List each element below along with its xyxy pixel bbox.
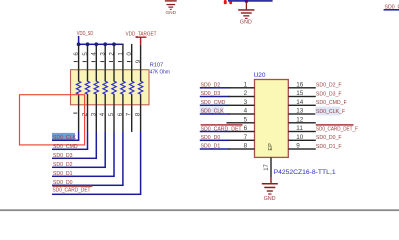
svg-text:3: 3	[90, 112, 97, 116]
resistor zigzag 2	[85, 81, 89, 94]
power VDD_TARGET	[126, 31, 158, 45]
svg-text:GND: GND	[264, 196, 276, 202]
sheet bottom border	[0, 209, 399, 211]
svg-text:SD0_CLK_F: SD0_CLK_F	[316, 109, 345, 115]
pin 9 stub (U20 right)	[288, 148, 316, 149]
wire SD0_CARD_DET (red segment, chip side)	[201, 124, 243, 125]
wire SD0_CMD to R107 pin	[52, 132, 88, 150]
pin number 1 (R107 bottom)	[73, 113, 77, 114]
ground symbol below U20	[262, 183, 278, 202]
svg-text:9: 9	[135, 59, 142, 63]
svg-text:13: 13	[296, 108, 304, 115]
pin number 16 (R107 top)	[73, 52, 80, 62]
ground symbol top-center	[238, 1, 254, 25]
svg-text:SD0_CARD_DET: SD0_CARD_DET	[53, 188, 92, 194]
svg-text:7: 7	[126, 112, 133, 116]
svg-text:14: 14	[296, 99, 304, 106]
svg-text:SD0_D2_F: SD0_D2_F	[316, 83, 342, 89]
junction dot line 3	[94, 42, 98, 46]
IC U20 body	[255, 80, 289, 158]
wire SD0_CMD to pin 3	[200, 105, 255, 107]
junction dot line 1	[77, 42, 81, 46]
svg-text:EP: EP	[268, 143, 274, 151]
ground symbol top-left	[165, 0, 177, 16]
pin 15 stub (U20 right)	[288, 96, 316, 97]
svg-text:5: 5	[82, 52, 89, 56]
pin 13 stub (U20 right)	[288, 113, 316, 114]
junction dot line 2	[86, 42, 90, 46]
pin number 12 (R107 top)	[108, 52, 115, 62]
resistor zigzag 4	[103, 81, 107, 94]
wire SD0_D1 to pin 8	[200, 148, 255, 150]
svg-text:6: 6	[244, 125, 248, 132]
highlight SD0_CLK label	[52, 133, 75, 140]
svg-text:6: 6	[73, 52, 80, 56]
highlight SD0_CLK_F (chip right)	[315, 107, 340, 116]
pin number 15 (R107 top)	[82, 52, 89, 62]
power VDD_SD	[77, 31, 94, 44]
resistor element 2 pin wires	[87, 44, 88, 132]
pin 10 stub (U20 right)	[288, 140, 316, 141]
svg-text:6: 6	[117, 112, 124, 116]
pin number 10 (R107 top)	[126, 52, 133, 62]
svg-text:4: 4	[244, 108, 248, 115]
svg-text:3: 3	[244, 99, 248, 106]
resistor zigzag 7	[130, 81, 134, 94]
wire SD0_CARD_DET to R107 pin 8	[52, 132, 141, 195]
svg-text:SD0_CARD_DET_F: SD0_CARD_DET_F	[316, 126, 358, 132]
wire SD0_D2 to R107 pin	[52, 132, 106, 168]
svg-text:5: 5	[244, 116, 248, 123]
svg-text:47K Ohm: 47K Ohm	[150, 70, 170, 76]
resistor zigzag 3	[94, 81, 98, 94]
wire SD0_CARD_DET_F (red segment)	[316, 124, 354, 125]
svg-text:GND: GND	[165, 10, 176, 16]
resistor zigzag 1	[76, 81, 80, 94]
svg-text:9: 9	[296, 143, 300, 150]
svg-text:R107: R107	[150, 62, 163, 68]
resistor zigzag 6	[121, 81, 125, 94]
wire pin 5 stub	[227, 122, 255, 123]
pin number 14 (R107 top)	[91, 52, 98, 62]
highlight SD0_CLK (chip left)	[200, 107, 224, 115]
junction dot top GND	[245, 0, 248, 3]
svg-text:SD0_CMD_F: SD0_CMD_F	[316, 100, 347, 106]
svg-text:16: 16	[296, 81, 304, 88]
resistor element 8 pin wires	[140, 45, 141, 132]
net label SD0_C (clipped)	[384, 4, 399, 10]
pin 12 stub (U20 right)	[288, 122, 316, 123]
resistor element 5 pin wires	[113, 44, 114, 132]
resistor element 4 pin wires	[105, 44, 106, 132]
svg-text:11: 11	[296, 125, 303, 132]
pin number 13 (R107 top)	[100, 52, 107, 62]
pin 14 stub (U20 right)	[288, 105, 316, 106]
wire SD0_CARD_DET (red segment)	[53, 185, 93, 186]
wire SD0_CLK to pin 4	[200, 113, 255, 115]
svg-text:8: 8	[244, 143, 248, 150]
svg-text:3: 3	[100, 52, 107, 56]
resistor zigzag 8	[138, 81, 142, 94]
wire SD0_D3 to R107 pin	[52, 132, 97, 159]
selection box (red)	[20, 95, 85, 145]
pin 11 stub (U20 right)	[288, 131, 316, 132]
wire pin 17 (EP) to GND	[270, 157, 271, 183]
wire SD0_D0 to pin 7	[200, 140, 255, 142]
svg-text:2: 2	[244, 90, 248, 97]
resistor element 7 pin wires	[131, 44, 132, 132]
wire SD0_D0 to R107 pin	[52, 132, 124, 186]
no-connect red marks	[224, 0, 232, 4]
wire VDD_SD bus	[78, 44, 124, 46]
svg-text:1: 1	[117, 52, 124, 56]
svg-text:2: 2	[108, 52, 115, 56]
svg-text:GND: GND	[240, 20, 252, 26]
resistor element 1 pin wires	[78, 44, 79, 132]
junction dot line 4	[103, 42, 107, 46]
svg-text:4: 4	[99, 112, 106, 116]
svg-text:0: 0	[126, 52, 133, 56]
wire SD0_D3 to pin 2	[200, 96, 255, 98]
wire SD0_D2 to pin 1	[200, 87, 255, 89]
wire pin 6	[200, 131, 255, 133]
svg-text:7: 7	[244, 134, 248, 141]
svg-text:12: 12	[296, 116, 304, 123]
svg-text:1: 1	[244, 81, 248, 88]
svg-text:P4252CZ16-8-TTL,1: P4252CZ16-8-TTL,1	[274, 169, 336, 176]
pin number 11 (R107 top)	[117, 52, 124, 62]
svg-text:5: 5	[108, 112, 115, 116]
resistor element 6 pin wires	[122, 44, 123, 132]
wire top net to GND	[228, 0, 273, 2]
resistor zigzag 5	[112, 81, 116, 94]
svg-text:10: 10	[296, 134, 304, 141]
svg-text:17: 17	[264, 163, 270, 170]
pin 16 stub (U20 right)	[288, 87, 316, 88]
resistor pack R107 body	[71, 70, 150, 105]
junction dot line 5	[112, 42, 116, 46]
svg-text:4: 4	[91, 52, 98, 56]
svg-text:15: 15	[296, 90, 304, 97]
svg-text:SD0_D3_F: SD0_D3_F	[316, 91, 342, 97]
wire SD0_CLK to R107 pin	[52, 132, 79, 141]
svg-text:SD0_D1_F: SD0_D1_F	[316, 144, 342, 150]
svg-text:SD0_D0_F: SD0_D0_F	[316, 135, 342, 141]
svg-text:8: 8	[135, 112, 142, 116]
svg-text:U20: U20	[254, 72, 266, 79]
wire SD0_D1 to R107 pin	[52, 132, 115, 177]
resistor element 3 pin wires	[96, 44, 97, 132]
